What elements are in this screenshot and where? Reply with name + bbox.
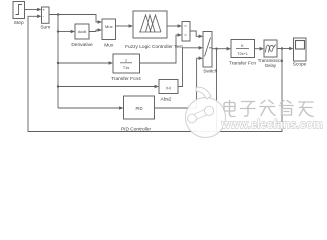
wire to Transfer Fcn4 — [58, 62, 109, 64]
wire Mux1 to Switch top — [190, 31, 199, 36]
watermark chinese glyphs (hand drawn) — [224, 100, 313, 117]
svg-text:|u|: |u| — [166, 85, 170, 90]
svg-text:Sum: Sum — [40, 25, 50, 31]
block Switch — [203, 32, 218, 75]
svg-text:Abs2: Abs2 — [161, 96, 172, 102]
svg-text:T2s+1: T2s+1 — [237, 52, 248, 56]
block Abs — [159, 80, 178, 103]
block Fuzzy Logic Controller — [125, 11, 183, 50]
wire Abs to Switch middle — [178, 48, 199, 87]
svg-text:K: K — [241, 43, 244, 48]
wire Switch to Transfer Fcn — [212, 48, 227, 50]
block Step — [13, 2, 25, 26]
svg-text:PID: PID — [136, 106, 143, 111]
block Transfer Fcn4 — [111, 54, 141, 82]
svg-text:www.elecfans.com: www.elecfans.com — [221, 117, 323, 132]
svg-text:PID Controller: PID Controller — [121, 127, 152, 133]
watermark logo small circle left — [188, 114, 197, 123]
svg-text:Step: Step — [14, 20, 24, 26]
block Sum — [40, 7, 50, 31]
wire error vertical bus — [57, 15, 59, 109]
wire to PID — [58, 107, 120, 109]
wire Transfer Fcn to Transmission Delay — [255, 48, 261, 50]
block Scope — [293, 38, 307, 68]
wire output feedback branch — [217, 49, 283, 132]
svg-text:Mux: Mux — [105, 24, 113, 29]
svg-text:Scope: Scope — [293, 62, 307, 68]
wire Transmission Delay to Scope — [277, 48, 290, 50]
watermark logo small circle right — [204, 106, 213, 115]
watermark logo bar — [192, 111, 210, 119]
svg-text:T1s: T1s — [123, 66, 129, 70]
svg-text:Derivative: Derivative — [71, 42, 93, 48]
block PID Controller — [121, 96, 155, 133]
block Derivative — [71, 24, 93, 48]
svg-text:Switch: Switch — [203, 68, 217, 74]
junction dots — [57, 13, 283, 87]
wire to Abs — [58, 86, 155, 88]
wire Derivative to Mux bottom — [89, 30, 98, 32]
svg-text:Transmission: Transmission — [258, 58, 284, 63]
block Transfer Fcn — [229, 40, 256, 67]
svg-text:Transfer Fcn4: Transfer Fcn4 — [111, 76, 141, 82]
svg-text:Fuzzy Logic Controller Test: Fuzzy Logic Controller Test — [125, 44, 183, 50]
wire Step to Sum — [25, 9, 38, 11]
svg-text:Transfer Fcn: Transfer Fcn — [229, 60, 256, 66]
svg-text:du/dt: du/dt — [78, 30, 87, 34]
wire Mux to Fuzzy — [116, 25, 130, 27]
watermark logo circle — [186, 87, 226, 137]
block Mux1 narrow — [182, 22, 190, 42]
block Mux — [102, 19, 116, 48]
wire Transfer Fcn4 to Mux1 bottom — [140, 35, 179, 63]
wire feedback loop — [28, 16, 217, 131]
watermark logo tail — [196, 87, 211, 99]
arrowheads — [37, 8, 293, 110]
wire PID to Switch bottom — [155, 58, 200, 108]
svg-text:Mux: Mux — [104, 42, 114, 48]
wire Fuzzy to Mux1 top — [167, 25, 178, 27]
wire to Derivative — [58, 31, 71, 33]
svg-text:Delay: Delay — [265, 63, 277, 68]
wire Sum output to Mux top — [49, 15, 98, 23]
block Transmission Delay — [258, 40, 284, 68]
